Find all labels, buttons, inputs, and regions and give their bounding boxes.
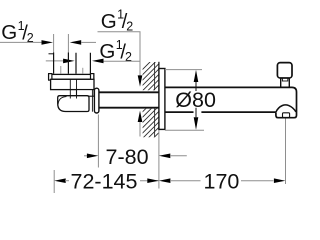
left stub extension lines above bbox=[54, 34, 69, 53]
left stub center tick bbox=[60, 66, 62, 74]
dimension 170 right extension line from aerator bbox=[285, 119, 287, 185]
elbow inner curve bbox=[58, 97, 66, 105]
wall hatching bbox=[139, 50, 162, 158]
label G1/2 top-left bbox=[1, 19, 34, 45]
elbow outlet outer edge bbox=[91, 89, 93, 112]
dimension 170 left arrowhead bbox=[159, 178, 171, 183]
svg-text:G: G bbox=[1, 21, 17, 44]
thread mark left of flange bbox=[49, 53, 54, 55]
stem of up arrow bbox=[139, 122, 141, 137]
left inlet stub bbox=[54, 53, 69, 74]
knob stem bbox=[281, 78, 290, 87]
pipe to wall top line bbox=[99, 91, 159, 93]
elbow bore lines bbox=[70, 79, 76, 98]
knob stem collar bbox=[282, 78, 287, 81]
dimension 170 right arrowhead bbox=[274, 178, 286, 183]
arrowhead pointing down at pipe top bbox=[138, 75, 143, 86]
tail line left of right-stub arrows bbox=[46, 60, 64, 62]
spout bottom edge left segment bbox=[165, 111, 194, 113]
label G1/2 top-middle upper bbox=[101, 8, 134, 34]
svg-text:170: 170 bbox=[204, 169, 240, 193]
svg-text:Ø80: Ø80 bbox=[175, 88, 216, 112]
right inlet stub bbox=[76, 53, 90, 74]
wall face extension line below rosette bbox=[158, 130, 160, 189]
arrowhead pointing left at right stub right edge bbox=[92, 59, 104, 64]
dimension 7-80 left arrowhead bbox=[87, 154, 99, 159]
aerator outlet bbox=[283, 113, 290, 118]
dimension 170 line right segment bbox=[241, 180, 274, 182]
flange right end cap bbox=[91, 74, 94, 81]
pipe to wall bottom line bbox=[99, 107, 159, 109]
spout bottom edge right segment bbox=[201, 111, 276, 113]
knob on spout bbox=[277, 63, 292, 78]
elbow right sub-block bbox=[77, 90, 95, 97]
dimension 7-80 left arrow tail bbox=[84, 155, 88, 157]
dimension Ø80 top extension line bbox=[165, 69, 202, 71]
dimension 72-145 line right segment bbox=[140, 180, 159, 182]
leader underline of lower G1/2 bbox=[103, 60, 140, 62]
label G1/2 top-middle lower bbox=[99, 38, 132, 64]
Ø80 up arrow bbox=[194, 70, 199, 82]
dimension 72-145 line left segment bbox=[65, 180, 69, 182]
arrowhead pointing up at pipe bottom bbox=[138, 111, 143, 122]
aerator dome contour bbox=[276, 105, 296, 112]
dimension 72-145 right arrowhead bbox=[147, 178, 159, 183]
arrowhead pointing right at right stub left edge bbox=[63, 59, 75, 64]
dimension 72-145 left extension line bbox=[53, 170, 55, 193]
elbow upper body bbox=[51, 79, 94, 89]
elbow lower body bbox=[58, 96, 89, 112]
union flange bar bbox=[49, 74, 94, 79]
right stub center tick bbox=[82, 68, 84, 74]
dimension 170 line left segment bbox=[170, 180, 201, 182]
arrowhead pointing left at left stub right edge bbox=[70, 40, 82, 45]
wall rosette (escutcheon) bbox=[159, 69, 165, 130]
dimension 7-80 right arrow tail bbox=[170, 155, 187, 157]
spout body outline bbox=[165, 87, 297, 117]
leader underline of top-left G1/2 bbox=[0, 41, 42, 43]
svg-text:72-145: 72-145 bbox=[71, 169, 138, 193]
svg-text:G: G bbox=[101, 10, 117, 33]
dimension 7-80 right arrowhead bbox=[159, 154, 171, 159]
flange left end cap bbox=[49, 74, 52, 81]
wall face line above rosette bbox=[158, 62, 160, 69]
arrowhead pointing right at left stub left edge bbox=[42, 40, 54, 45]
leader of upper G1/2: underline and drop to pipe bbox=[98, 32, 141, 76]
pipe flange disc bbox=[94, 88, 99, 113]
Ø80 down arrow bbox=[194, 117, 199, 130]
dimension 72-145 left arrowhead bbox=[54, 178, 65, 183]
dimension 7-80 left extension line bbox=[97, 115, 99, 168]
svg-text:7-80: 7-80 bbox=[106, 145, 149, 169]
tail line right of arrowhead bbox=[81, 41, 96, 43]
dimension Ø80 bottom extension line bbox=[165, 129, 204, 131]
